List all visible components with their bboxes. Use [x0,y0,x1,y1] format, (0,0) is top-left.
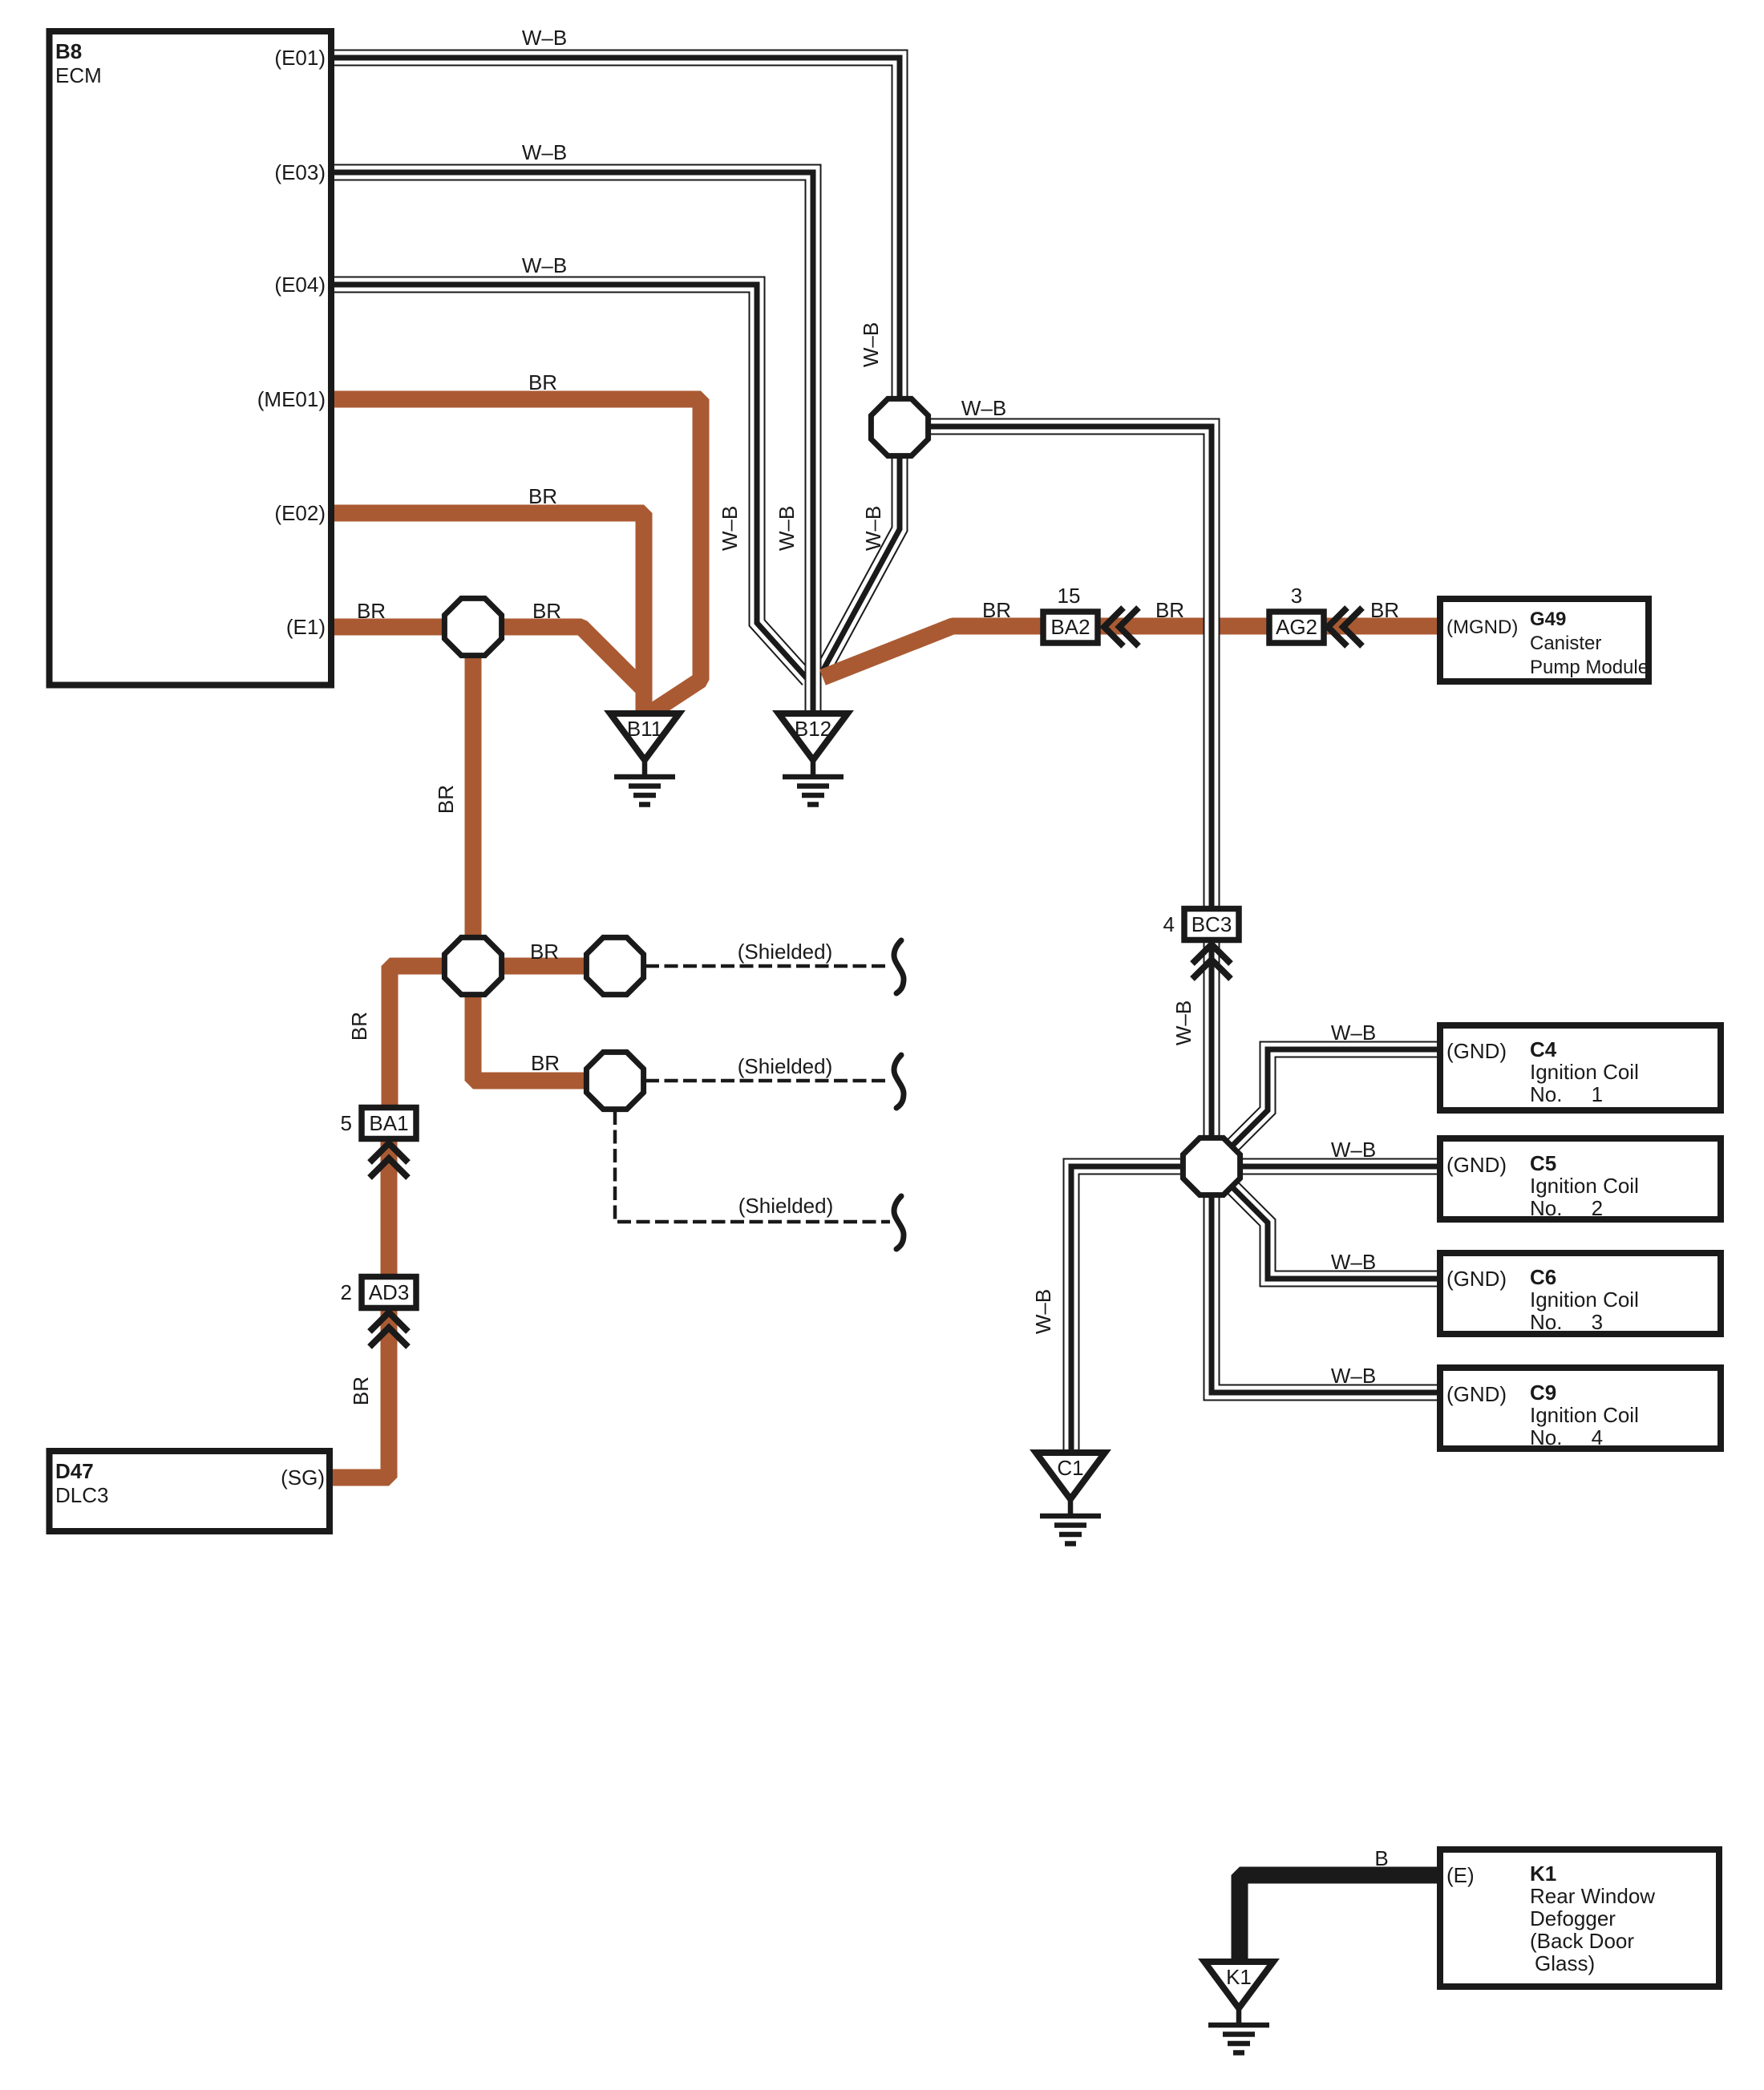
svg-text:AD3: AD3 [369,1280,410,1304]
node J3 junction BR shielded branch [586,937,643,994]
svg-text:(GND): (GND) [1446,1382,1507,1406]
svg-text:(MGND): (MGND) [1446,616,1518,638]
wire BR node J2 to node J3 and corner down to connector BA1 [390,966,645,1110]
wire shielded dashed from node J4 bottom [615,1111,890,1222]
svg-text:C4: C4 [1530,1037,1557,1061]
svg-text:W–B: W–B [522,140,567,164]
svg-text:W–B: W–B [1331,1250,1376,1274]
canister pump module box G49 [1440,599,1649,681]
svg-text:DLC3: DLC3 [55,1483,108,1507]
svg-text:W–B: W–B [1171,1001,1196,1045]
svg-text:B12: B12 [795,717,831,741]
ECM box B8 [50,31,332,685]
wire W-B node J6 to ignition coil C4 [1232,1049,1437,1146]
svg-text:Glass): Glass) [1535,1951,1595,1975]
svg-text:BR: BR [347,1012,371,1041]
svg-text:(GND): (GND) [1446,1039,1507,1063]
svg-text:W–B: W–B [522,253,567,277]
svg-text:(E04): (E04) [274,273,326,297]
svg-text:W–B: W–B [861,506,885,551]
svg-text:BR: BR [532,599,561,623]
svg-text:BR: BR [349,1376,373,1405]
svg-text:C1: C1 [1057,1456,1083,1480]
connector BC3 [1184,909,1239,980]
ground C1 [1036,1453,1105,1544]
svg-text:W–B: W–B [1331,1364,1376,1388]
svg-text:BR: BR [530,940,559,964]
connector AD3 [362,1277,416,1348]
shield continuation symbol row 2 [894,1055,904,1108]
wire BR canister pump ground G49 to connector AG2 to connector BA2 [953,618,1437,635]
svg-text:15: 15 [1058,584,1081,608]
wire W-B from node J5 down to ground B12 [823,455,900,671]
wire BR (ME01) from ECM to ground B11 [331,399,701,714]
ignition coil box C5 [1440,1138,1721,1219]
svg-text:B8: B8 [55,39,82,63]
svg-text:Rear Window: Rear Window [1530,1884,1655,1908]
node J5 junction W-B [871,398,928,455]
wire shielded dashed from node J4 [645,1079,890,1083]
svg-text:W–B: W–B [1031,1289,1055,1334]
svg-text:B11: B11 [627,717,662,741]
wire BR diagonal from connector BA2 to ground B12 [823,626,1002,677]
wire W-B (E04) from ECM to ground B12 [331,285,808,680]
svg-text:BR: BR [357,599,386,623]
node J2 junction BR [444,937,501,994]
svg-text:W–B: W–B [718,506,742,551]
svg-text:K1: K1 [1530,1862,1556,1886]
svg-text:Ignition Coil: Ignition Coil [1530,1403,1639,1427]
svg-text:2: 2 [341,1280,352,1304]
svg-text:Ignition Coil: Ignition Coil [1530,1288,1639,1312]
svg-text:W–B: W–B [522,26,567,50]
svg-text:K1: K1 [1226,1965,1252,1989]
svg-text:(Back Door: (Back Door [1530,1929,1634,1953]
svg-text:BC3: BC3 [1192,912,1232,936]
svg-text:No. 2: No. 2 [1530,1196,1603,1220]
node J4 junction BR shielded branch [586,1052,643,1109]
wire B from rear window defogger K1 to ground K1 [1240,1875,1437,1963]
connector BA1 [362,1108,416,1178]
wire BR connector AD3 to DLC3 (SG) [331,1308,389,1478]
svg-text:(SG): (SG) [281,1465,325,1490]
svg-text:4: 4 [1163,912,1175,936]
svg-text:B: B [1374,1846,1388,1870]
svg-text:BR: BR [528,370,557,394]
wire BR vertical from node J1 to node J2 [465,627,482,966]
svg-text:BR: BR [531,1051,560,1075]
svg-text:(GND): (GND) [1446,1267,1507,1291]
ground B11 [610,714,679,805]
svg-text:W–B: W–B [1331,1021,1376,1045]
svg-text:W–B: W–B [1331,1138,1376,1162]
wire BR node J2 bottom branch to node J4 [473,966,585,1081]
wire W-B (E03) from ECM to ground B12 [331,172,813,714]
svg-text:(E02): (E02) [274,501,326,525]
ignition coil box C9 [1440,1368,1721,1449]
wire W-B node J6 to ground C1 [1071,1166,1183,1453]
svg-text:Defogger: Defogger [1530,1906,1616,1930]
svg-text:Ignition Coil: Ignition Coil [1530,1174,1639,1198]
wire W-B (E01) from ECM to node J5 [331,58,900,398]
svg-text:C5: C5 [1530,1151,1556,1175]
DLC3 box D47 [50,1451,330,1531]
svg-text:C6: C6 [1530,1265,1556,1289]
svg-text:D47: D47 [55,1459,94,1483]
svg-text:W–B: W–B [859,322,883,367]
svg-text:(E1): (E1) [286,615,326,639]
wire W-B from node J5 right and down through connector BC3 to node J6 [929,426,1212,1135]
svg-text:(Shielded): (Shielded) [738,1194,834,1218]
svg-text:No. 3: No. 3 [1530,1310,1603,1334]
svg-text:(Shielded): (Shielded) [738,1054,833,1078]
wire BR (E02) from ECM to ground B11 [331,513,644,715]
svg-text:(ME01): (ME01) [257,387,326,411]
ground B12 [779,714,848,805]
node J6 junction W-B ignition coils [1183,1138,1240,1195]
wire W-B node J6 to ignition coil C5 [1242,1166,1437,1167]
connector BA2 [1043,608,1139,646]
ignition coil box C6 [1440,1253,1721,1334]
svg-text:BA2: BA2 [1050,615,1090,639]
wire BR (E1) from ECM to ground B11 [331,627,644,715]
svg-text:C9: C9 [1530,1381,1556,1405]
rear window defogger box K1 [1440,1849,1719,1987]
svg-text:(GND): (GND) [1446,1153,1507,1177]
svg-text:AG2: AG2 [1276,615,1317,639]
svg-text:No. 1: No. 1 [1530,1082,1603,1106]
ignition coil box C4 [1440,1025,1721,1110]
svg-text:No. 4: No. 4 [1530,1425,1603,1449]
svg-text:(E01): (E01) [274,46,326,70]
svg-text:(Shielded): (Shielded) [738,940,833,964]
svg-text:Canister: Canister [1530,633,1601,654]
ground K1 [1204,1962,1273,2053]
svg-text:W–B: W–B [961,396,1006,420]
svg-text:ECM: ECM [55,63,102,87]
wire W-B node J6 to ignition coil C9 [1212,1196,1437,1393]
connector AG2 [1269,608,1362,646]
svg-text:W–B: W–B [775,506,799,551]
svg-text:Pump Module: Pump Module [1530,657,1649,678]
shield continuation symbol row 3 [894,1196,904,1249]
svg-text:BR: BR [434,785,458,814]
svg-text:3: 3 [1291,584,1302,608]
wire W-B node J6 to ignition coil C6 [1232,1187,1437,1279]
wire shielded dashed from node J3 [645,964,890,968]
svg-text:(E03): (E03) [274,160,326,184]
svg-text:(E): (E) [1446,1863,1475,1887]
svg-text:BR: BR [982,598,1011,622]
svg-text:Ignition Coil: Ignition Coil [1530,1060,1639,1084]
svg-text:G49: G49 [1530,608,1566,630]
svg-text:BR: BR [1370,598,1399,622]
svg-text:BR: BR [1155,598,1184,622]
node J1 junction on BR (E1) [444,598,501,655]
svg-text:BA1: BA1 [369,1111,408,1135]
wire BR connector BA1 to connector AD3 [381,1138,398,1279]
shield continuation symbol row 1 [894,940,904,993]
svg-text:BR: BR [528,484,557,508]
svg-text:5: 5 [341,1111,352,1135]
